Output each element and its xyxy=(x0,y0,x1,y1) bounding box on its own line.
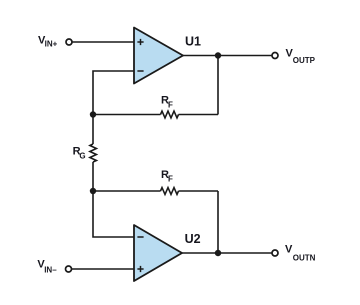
node junction left rail bottom xyxy=(90,188,96,194)
svg-text:OUTP: OUTP xyxy=(293,56,316,65)
resistor RG xyxy=(90,144,97,162)
svg-text:U1: U1 xyxy=(185,35,201,49)
label VOUTN xyxy=(285,243,316,262)
wire left rail from bottom junction to U2 inverting input xyxy=(93,191,134,237)
wire U2 output to VOUTN terminal xyxy=(182,252,272,254)
svg-text:G: G xyxy=(79,151,85,160)
label RF (top) xyxy=(161,94,173,109)
node junction U2 output xyxy=(215,250,221,256)
svg-text:OUTN: OUTN xyxy=(293,253,316,262)
wire bottom RF row right segment xyxy=(179,190,219,192)
wire bottom RF row left segment xyxy=(93,190,161,192)
wire U1 output to VOUTP terminal xyxy=(183,55,272,57)
terminal VOUTN xyxy=(272,250,278,256)
U1 plus sign xyxy=(137,39,143,45)
wire left rail between RG and bottom junction xyxy=(92,162,94,191)
label VOUTP xyxy=(286,47,316,65)
resistor RF (top) xyxy=(161,111,179,118)
label VIN- xyxy=(37,259,57,275)
wire top RF row left segment xyxy=(93,114,161,116)
svg-text:IN–: IN– xyxy=(44,265,57,274)
node junction U1 output xyxy=(215,52,221,58)
node junction left rail top xyxy=(90,111,96,117)
terminal VIN+ xyxy=(66,39,72,45)
wire left rail between top junction and RG xyxy=(92,115,94,145)
U2 plus sign xyxy=(137,266,143,272)
op-amp U1 xyxy=(134,28,183,84)
terminal VIN- xyxy=(66,266,72,272)
wire U1 inverting input to left rail corner xyxy=(93,71,134,115)
terminal VOUTP xyxy=(272,53,278,59)
wire VIN- lead to U2 noninverting input xyxy=(72,268,134,270)
U2 minus sign xyxy=(137,236,143,238)
U1 minus sign xyxy=(137,70,143,72)
resistor RF (bottom) xyxy=(161,188,179,195)
wire VIN+ lead to U1 noninverting input xyxy=(72,41,134,43)
label VIN+ xyxy=(38,35,58,49)
svg-text:F: F xyxy=(168,100,173,109)
label RF (bottom) xyxy=(161,169,173,183)
svg-text:IN+: IN+ xyxy=(45,39,58,48)
wire feedback vertical from bottom RF down to VOUTN node xyxy=(217,191,219,253)
label RG xyxy=(73,146,86,161)
svg-text:F: F xyxy=(168,175,173,184)
wire feedback vertical from VOUTP node down to top RF xyxy=(217,56,219,115)
svg-text:V: V xyxy=(285,243,293,255)
op-amp U2 xyxy=(134,225,182,281)
wire top RF row right segment xyxy=(179,114,219,116)
svg-text:U2: U2 xyxy=(185,232,201,246)
